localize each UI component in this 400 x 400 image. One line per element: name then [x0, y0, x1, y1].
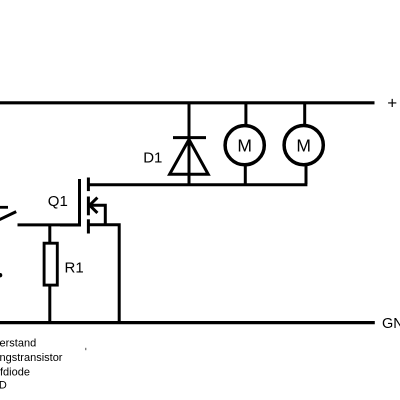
wire: GND bottom rail — [0, 321, 375, 324]
switch S1 (partial, cut at left edge) — [0, 207, 16, 220]
transistor Q1 — [60, 178, 105, 234]
svg-text:M: M — [296, 136, 311, 156]
svg-text:Q1: Q1 — [48, 193, 68, 210]
svg-text:D: D — [0, 380, 7, 392]
wire: +V top rail — [0, 101, 375, 104]
svg-text:D1: D1 — [143, 150, 162, 167]
svg-text:R1: R1 — [65, 260, 84, 277]
node mark (cut at left edge) — [0, 273, 2, 277]
svg-text:GND: GND — [382, 316, 400, 332]
svg-text:M: M — [237, 136, 252, 156]
wire: motor M1 bottom — [244, 166, 247, 185]
svg-text:+: + — [387, 94, 397, 113]
diode D1 — [170, 104, 209, 185]
wire: motor M2 top — [303, 104, 306, 125]
resistor R1 — [44, 243, 57, 285]
wire: R1 bottom to GND — [48, 287, 51, 323]
svg-text:erstand: erstand — [0, 337, 36, 349]
stray mark — [85, 348, 86, 350]
wire: motor M1 top — [244, 104, 247, 125]
wire: motor M2 bottom — [305, 166, 308, 185]
svg-text:fdiode: fdiode — [0, 367, 30, 379]
wire: drain node (diode anode / motors low side) — [88, 183, 307, 186]
wire: Q1 source to GND — [87, 225, 119, 323]
svg-text:ngstransistor: ngstransistor — [0, 352, 63, 364]
motor M1 — [225, 126, 264, 165]
motor M2 — [284, 126, 323, 165]
wire: gate node to R1 top — [48, 225, 51, 243]
wire: gate node — [18, 223, 80, 226]
